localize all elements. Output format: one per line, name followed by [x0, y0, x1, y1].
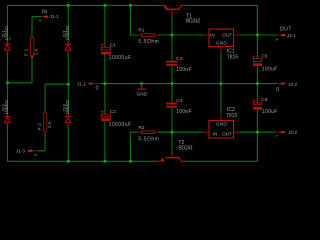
label IC2 value 7915: [226, 113, 238, 119]
junction dot GND rail gnd symbol: [140, 82, 143, 85]
junction dot GND rail IC pins: [219, 82, 222, 85]
svg-text:C3: C3: [176, 56, 182, 62]
label C3: [176, 56, 182, 62]
svg-text:IN: IN: [213, 131, 218, 137]
label C1: [110, 42, 116, 48]
svg-text:C1: C1: [110, 42, 116, 48]
label D3: [62, 30, 67, 37]
svg-text:10000uF: 10000uF: [109, 122, 132, 128]
label D1: [1, 30, 6, 37]
wire IC GND column: [220, 52, 222, 114]
svg-text:J3-2: J3-2: [288, 82, 297, 87]
wire R1 to IC1 IN: [158, 34, 203, 36]
net blip near J1-1: [39, 20, 41, 21]
diode D3: [65, 42, 71, 53]
resistor R2: [137, 131, 158, 134]
svg-text:100nF: 100nF: [176, 109, 191, 115]
label J2-1: [287, 33, 296, 38]
junction dot GND rail C1: [103, 82, 106, 85]
junction dot bottom rail R2: [129, 160, 132, 163]
label C6 value 100uF: [262, 109, 278, 115]
svg-text:1N5401: 1N5401: [65, 25, 70, 40]
label IC1 value 7815: [227, 54, 239, 60]
svg-text:IN: IN: [210, 32, 215, 38]
net label 0 near J3-2: [276, 87, 279, 93]
wire R2 branch vertical: [131, 132, 138, 161]
wire T1 base / C3 column: [171, 15, 173, 83]
label T1 value BD242: [186, 18, 201, 24]
capacitor C5: [252, 56, 262, 67]
svg-text:100uF: 100uF: [262, 67, 278, 73]
svg-text:C4: C4: [176, 98, 182, 104]
IC1 pin label GND: [216, 41, 227, 47]
capacitor C6: [252, 99, 262, 109]
net label 0 (center tap): [96, 86, 99, 92]
svg-text:GND: GND: [216, 41, 227, 47]
label R2: [138, 125, 144, 131]
svg-text:OUT: OUT: [280, 27, 293, 33]
pin J3-2 (0V output): [277, 83, 285, 85]
label C4 value 100nF: [176, 109, 191, 115]
wire top rail right segment: [186, 4, 257, 6]
svg-text:100uF: 100uF: [262, 109, 278, 115]
svg-text:7915: 7915: [226, 113, 238, 119]
label C2: [110, 109, 116, 115]
pin J1-2: [89, 83, 100, 85]
label F1: [24, 48, 29, 55]
wire J1-1 horizontal: [32, 16, 42, 18]
label C3 value 100nF: [176, 67, 191, 73]
label GND symbol: [137, 92, 148, 98]
wire D1/D2 column: [7, 5, 9, 161]
wire top rail left segment: [8, 4, 159, 6]
svg-text:BD241: BD241: [178, 145, 193, 151]
svg-text:2A: 2A: [47, 120, 52, 128]
svg-text:0: 0: [96, 86, 99, 92]
svg-text:J1-3: J1-3: [16, 149, 25, 154]
svg-text:IN: IN: [42, 9, 47, 15]
svg-text:F1: F1: [24, 48, 29, 55]
label R2 value 5.5Ohm: [138, 136, 158, 142]
svg-text:OUT: OUT: [222, 32, 232, 38]
svg-text:5.5Ohm: 5.5Ohm: [138, 136, 158, 142]
label T2 value BD241: [178, 145, 193, 151]
net blip near D1: [9, 38, 11, 39]
label D4 value 1N5401: [65, 99, 70, 114]
IC1 7815 box: [203, 29, 239, 52]
label C5 value 100uF: [262, 67, 278, 73]
junction dot GND rail C5: [256, 82, 259, 85]
wire AC2 node horizontal: [45, 83, 68, 85]
label C6: [261, 97, 267, 103]
wire D3/D4 column: [67, 5, 69, 161]
svg-text:GND: GND: [137, 92, 148, 98]
IC2 pin label OUT: [222, 131, 232, 137]
label F2 value 2A: [47, 120, 52, 128]
wire F1 vertical (J1-1 branch): [31, 17, 33, 83]
pin J1-3: [28, 150, 37, 152]
svg-text:R1: R1: [138, 28, 144, 34]
svg-text:1N5401: 1N5401: [4, 99, 9, 114]
label OUT flag: [280, 27, 293, 33]
pin J1-1: [42, 16, 49, 18]
capacitor C1: [101, 43, 111, 54]
resistor R1: [137, 34, 158, 37]
label D1 value 1N5401: [4, 25, 9, 40]
net blip - near J2-2: [276, 135, 278, 136]
pin J2-1 (+ output): [277, 34, 285, 36]
svg-text:OUT: OUT: [222, 131, 232, 137]
diode D2: [4, 114, 10, 125]
label C4: [176, 98, 182, 104]
pin J2-2 (- output): [275, 131, 285, 133]
junction dot +OUT node: [256, 34, 259, 37]
wire IC1 OUT to +node: [239, 34, 277, 36]
wire AC1 node horizontal: [8, 82, 33, 84]
junction dot top rail D3: [67, 4, 70, 7]
capacitor C3: [166, 61, 177, 66]
label IC1: [227, 49, 235, 55]
junction dot -OUT node: [256, 131, 259, 134]
wire bottom rail left segment: [8, 160, 156, 162]
diode D4: [65, 114, 71, 125]
svg-text:R2: R2: [138, 125, 144, 131]
label R1: [138, 28, 144, 34]
label J1-1: [50, 14, 59, 19]
svg-text:J1-2: J1-2: [77, 81, 86, 86]
net blip near J1-3: [34, 154, 37, 155]
label T1: [186, 14, 192, 20]
gnd symbol on rail: [138, 84, 147, 89]
wire bottom rail right segment: [185, 160, 258, 162]
svg-text:100nF: 100nF: [176, 67, 191, 73]
label C1 value 10000uF: [109, 55, 132, 61]
svg-text:C6: C6: [261, 97, 267, 103]
wire R2 to IC2 IN: [158, 131, 203, 133]
label C2 value 10000uF: [109, 122, 132, 128]
label F1 value 2A: [33, 47, 38, 55]
junction dot bottom rail D4: [67, 160, 70, 163]
IC2 7915 box: [203, 113, 239, 138]
label D3 value 1N5401: [65, 25, 70, 40]
junction dot top rail C1: [103, 4, 106, 7]
wire C1/C2 column: [104, 5, 106, 161]
wire C5/C6 column: [256, 5, 258, 161]
svg-text:BD242: BD242: [186, 18, 201, 24]
label C5: [261, 54, 267, 60]
IC1 pin label OUT: [222, 32, 232, 38]
IC2 pin label GND: [216, 122, 227, 128]
svg-text:C2: C2: [110, 109, 116, 115]
transistor T1 BD242: [159, 5, 186, 15]
junction dot R1/T1 base node: [171, 34, 174, 37]
label J2-2: [288, 130, 297, 135]
junction dot top rail R1: [129, 4, 132, 7]
label J3-2: [288, 82, 297, 87]
wire C4 / T2 base column: [171, 84, 173, 153]
svg-text:J2-2: J2-2: [288, 130, 297, 135]
svg-text:F2: F2: [37, 123, 42, 130]
capacitor C4: [166, 103, 177, 108]
label D4: [62, 104, 67, 111]
svg-text:5.5Ohm: 5.5Ohm: [138, 39, 158, 45]
svg-text:GND: GND: [216, 122, 227, 128]
junction dot AC2 node: [67, 83, 70, 86]
label D2 value 1N5401: [4, 99, 9, 114]
transistor T2 BD241: [155, 152, 185, 162]
svg-text:J2-1: J2-1: [287, 33, 296, 38]
svg-text:1N5401: 1N5401: [65, 99, 70, 114]
label T2: [178, 140, 184, 146]
svg-text:10000uF: 10000uF: [109, 55, 132, 61]
svg-text:2A: 2A: [33, 47, 38, 55]
wire GND rail: [100, 83, 278, 85]
label J1-2: [77, 81, 86, 86]
fuse F2: [43, 113, 47, 132]
wire R1 branch vertical: [131, 5, 138, 35]
fuse F1: [30, 37, 34, 58]
capacitor C2: [101, 110, 111, 121]
wire J1-3 horizontal: [37, 150, 45, 152]
svg-text:1N5401: 1N5401: [4, 25, 9, 40]
IC1 pin label IN: [210, 32, 215, 38]
label F2: [37, 123, 42, 130]
junction dot bottom rail C2: [103, 160, 106, 163]
label IN flag: [42, 9, 47, 15]
label R1 value 5.5Ohm: [138, 39, 158, 45]
label IC2: [227, 107, 235, 113]
svg-text:7815: 7815: [227, 54, 239, 60]
wire F2 vertical (J1-3 branch): [44, 84, 46, 151]
label J1-3: [16, 149, 25, 154]
junction dot AC1 node: [6, 81, 9, 84]
svg-text:J1-1: J1-1: [50, 14, 59, 19]
svg-text:C5: C5: [261, 54, 267, 60]
junction dot GND rail C3: [171, 82, 174, 85]
net blip + near J2-1: [276, 39, 278, 41]
svg-text:0: 0: [276, 87, 279, 93]
label D2: [1, 104, 6, 111]
IC2 pin label IN: [213, 131, 218, 137]
junction dot R2/T2 base node: [171, 131, 174, 134]
diode D1: [4, 42, 10, 53]
wire IC2 OUT to -node: [239, 131, 275, 133]
